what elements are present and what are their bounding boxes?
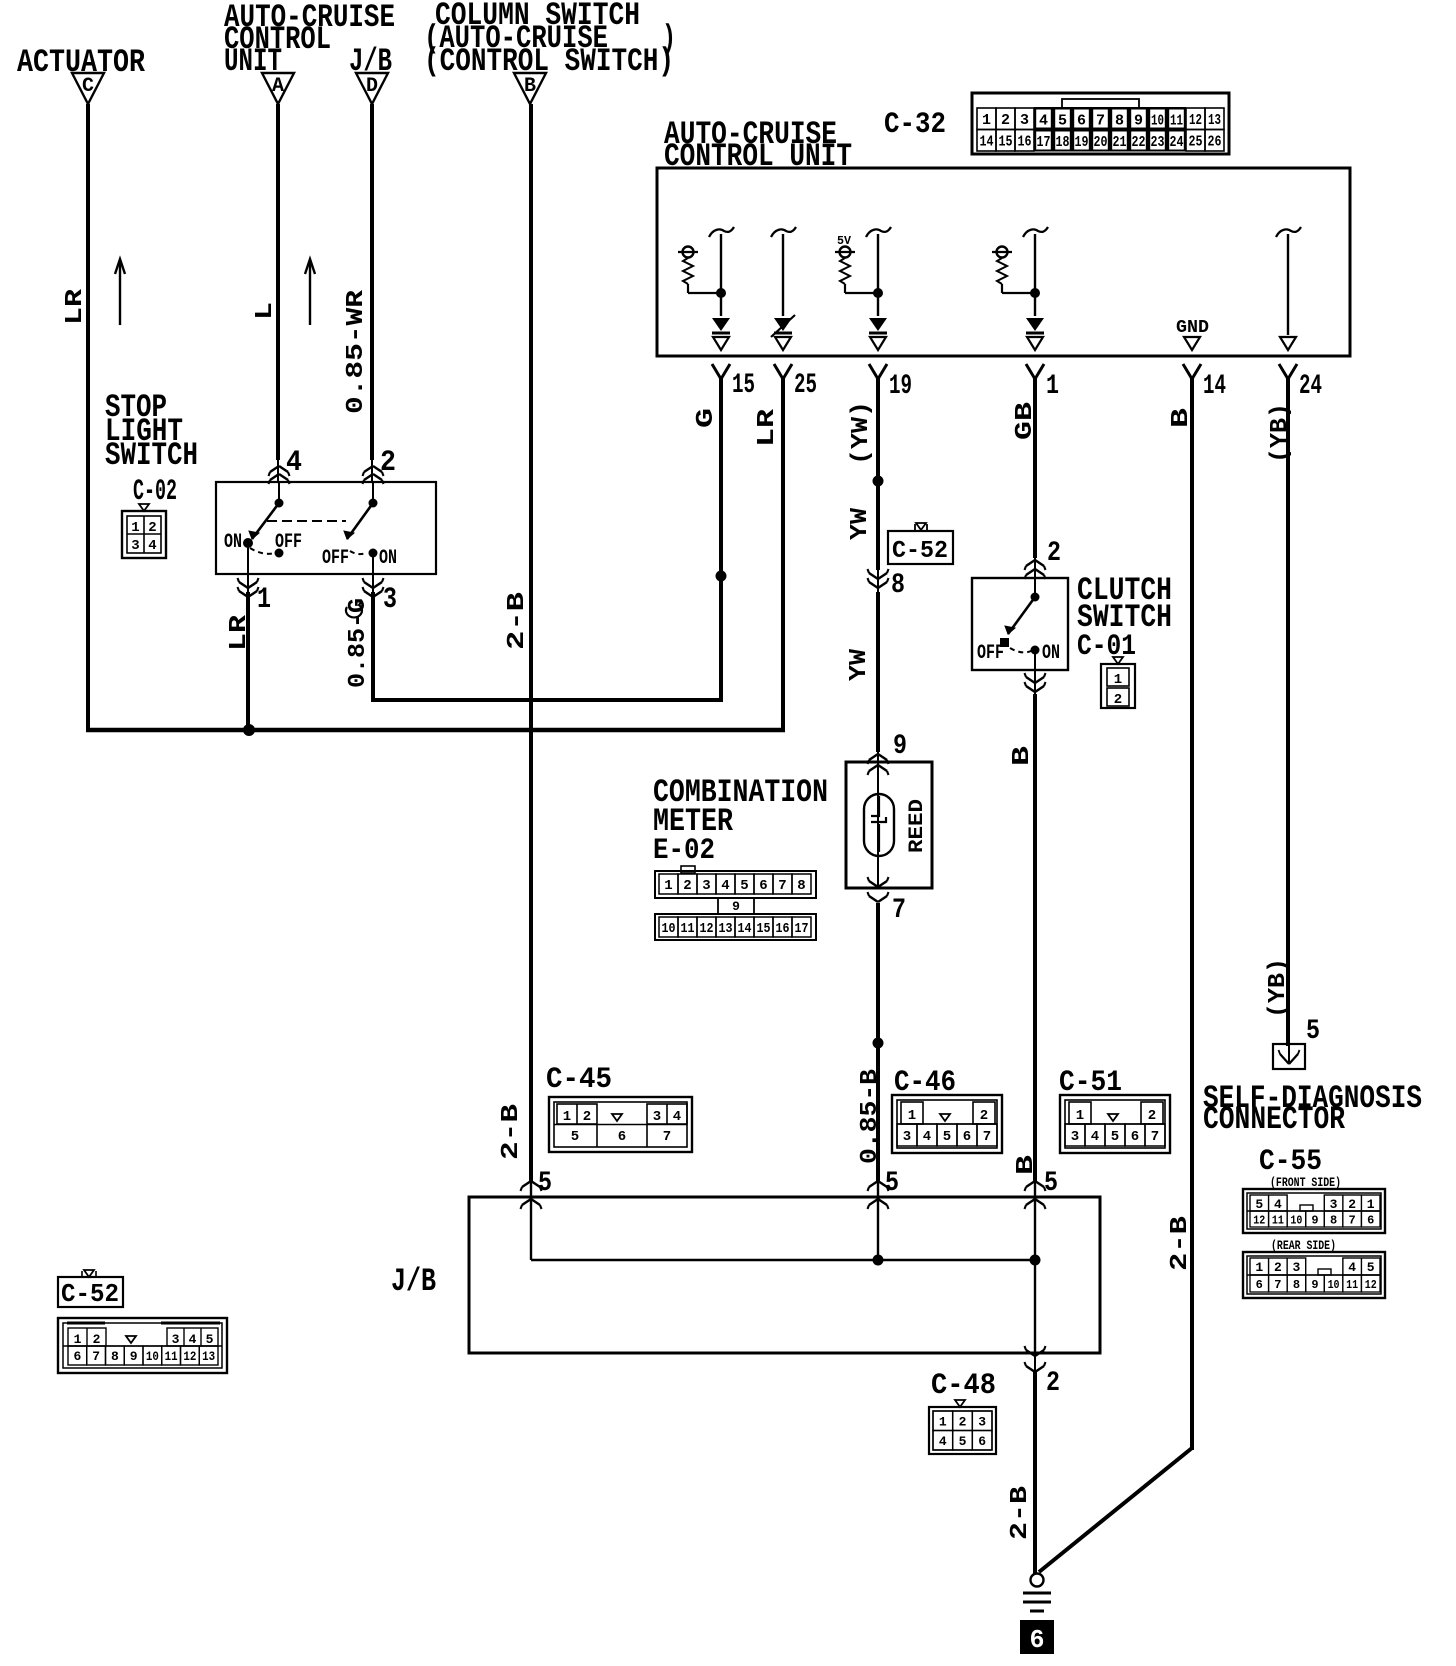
svg-text:6: 6 — [963, 1129, 971, 1145]
svg-text:4: 4 — [721, 878, 729, 894]
svg-text:19: 19 — [1075, 134, 1089, 151]
svg-text:0.85-G: 0.85-G — [345, 598, 372, 688]
svg-text:1: 1 — [1076, 1108, 1084, 1124]
svg-text:7: 7 — [983, 1129, 991, 1145]
svg-text:(CONTROL SWITCH): (CONTROL SWITCH) — [424, 43, 674, 80]
svg-text:5: 5 — [1255, 1197, 1263, 1212]
svg-text:(YB): (YB) — [1265, 958, 1292, 1018]
svg-text:2: 2 — [148, 520, 156, 536]
svg-text:4: 4 — [1091, 1129, 1099, 1145]
svg-text:5: 5 — [740, 878, 748, 894]
svg-text:5: 5 — [206, 1332, 214, 1347]
svg-text:C-51: C-51 — [1059, 1066, 1122, 1100]
svg-text:LR: LR — [62, 288, 89, 325]
svg-text:3: 3 — [702, 878, 710, 894]
svg-text:9: 9 — [1311, 1213, 1318, 1227]
svg-text:ON: ON — [224, 531, 242, 554]
svg-text:3: 3 — [978, 1414, 986, 1429]
svg-text:1: 1 — [664, 878, 672, 894]
svg-text:4: 4 — [923, 1129, 931, 1145]
svg-text:C-46: C-46 — [894, 1066, 956, 1100]
svg-text:4: 4 — [673, 1109, 681, 1125]
svg-text:4: 4 — [286, 446, 302, 480]
svg-text:(YB): (YB) — [1267, 403, 1294, 463]
svg-text:8: 8 — [797, 878, 805, 894]
svg-text:9: 9 — [1134, 113, 1143, 130]
svg-text:ON: ON — [379, 547, 397, 570]
svg-text:4: 4 — [939, 1434, 947, 1449]
svg-text:18: 18 — [1056, 134, 1070, 151]
svg-text:6: 6 — [1367, 1213, 1374, 1227]
svg-text:5: 5 — [959, 1434, 967, 1449]
svg-text:15: 15 — [757, 921, 771, 937]
svg-text:15: 15 — [732, 370, 755, 401]
svg-text:6: 6 — [1077, 113, 1086, 130]
svg-text:B: B — [1013, 1155, 1040, 1175]
svg-text:5: 5 — [1058, 113, 1067, 130]
svg-text:13: 13 — [1208, 112, 1221, 129]
svg-text:8: 8 — [1115, 113, 1124, 130]
svg-text:14: 14 — [980, 134, 994, 151]
svg-text:3: 3 — [903, 1129, 911, 1145]
svg-text:LR: LR — [226, 614, 253, 651]
svg-text:2: 2 — [683, 878, 691, 894]
svg-text:14: 14 — [1203, 371, 1226, 402]
svg-text:2-B: 2-B — [1007, 1486, 1034, 1540]
svg-text:C-01: C-01 — [1077, 630, 1136, 664]
svg-text:12: 12 — [1189, 112, 1202, 129]
svg-text:1: 1 — [939, 1414, 947, 1429]
svg-text:3: 3 — [1071, 1129, 1079, 1145]
svg-text:6: 6 — [1030, 1625, 1045, 1655]
svg-text:9: 9 — [1311, 1278, 1318, 1292]
svg-text:1: 1 — [982, 112, 991, 129]
svg-text:3: 3 — [131, 538, 139, 554]
svg-text:16: 16 — [1018, 134, 1032, 151]
svg-text:2: 2 — [1114, 692, 1122, 708]
svg-text:(REAR SIDE): (REAR SIDE) — [1271, 1238, 1336, 1253]
svg-text:1: 1 — [257, 583, 271, 617]
svg-text:GB: GB — [1012, 402, 1039, 440]
svg-text:2-B: 2-B — [504, 592, 531, 650]
svg-text:LR: LR — [754, 408, 781, 447]
svg-text:B: B — [1168, 408, 1195, 428]
svg-text:8: 8 — [1330, 1213, 1337, 1227]
svg-text:5: 5 — [571, 1129, 579, 1145]
svg-text:1: 1 — [1367, 1197, 1375, 1212]
svg-text:17: 17 — [795, 921, 809, 937]
svg-text:25: 25 — [1189, 134, 1203, 151]
svg-text:6: 6 — [978, 1434, 986, 1449]
svg-text:9: 9 — [732, 899, 740, 914]
svg-text:1: 1 — [563, 1109, 571, 1125]
svg-text:1: 1 — [1046, 371, 1059, 402]
svg-text:23: 23 — [1151, 134, 1165, 151]
svg-text:5: 5 — [1306, 1016, 1320, 1047]
svg-text:2: 2 — [1001, 112, 1010, 129]
svg-text:(YW): (YW) — [848, 401, 875, 465]
svg-text:7: 7 — [778, 878, 786, 894]
svg-text:L: L — [252, 302, 279, 320]
svg-text:21: 21 — [1113, 134, 1127, 151]
svg-text:8: 8 — [891, 570, 905, 601]
svg-text:7: 7 — [1349, 1213, 1356, 1227]
svg-text:6: 6 — [73, 1349, 81, 1364]
svg-text:9: 9 — [130, 1349, 138, 1364]
svg-text:0.85-WR: 0.85-WR — [343, 289, 370, 414]
svg-text:SWITCH: SWITCH — [105, 437, 198, 474]
svg-text:19: 19 — [889, 371, 912, 402]
svg-text:5: 5 — [943, 1129, 951, 1145]
svg-text:4: 4 — [1039, 113, 1048, 130]
svg-text:B: B — [1009, 746, 1036, 766]
svg-text:2: 2 — [1274, 1260, 1282, 1275]
svg-text:C-52: C-52 — [892, 538, 948, 565]
svg-text:2-B: 2-B — [498, 1104, 525, 1160]
svg-text:15: 15 — [999, 134, 1013, 151]
svg-text:C-52: C-52 — [61, 1279, 119, 1309]
svg-text:2: 2 — [959, 1414, 967, 1429]
svg-text:2: 2 — [93, 1332, 101, 1347]
svg-text:2: 2 — [583, 1109, 591, 1125]
svg-text:ON: ON — [1042, 642, 1060, 665]
svg-text:2: 2 — [1348, 1197, 1356, 1212]
svg-text:16: 16 — [776, 921, 790, 937]
svg-text:10: 10 — [1290, 1213, 1302, 1227]
svg-text:REED: REED — [906, 799, 929, 853]
svg-text:C-48: C-48 — [931, 1369, 996, 1403]
svg-text:13: 13 — [202, 1349, 215, 1364]
svg-text:7: 7 — [663, 1129, 671, 1145]
svg-text:11: 11 — [1346, 1278, 1358, 1292]
svg-text:C: C — [82, 75, 94, 98]
svg-text:20: 20 — [1094, 134, 1108, 151]
svg-text:(FRONT SIDE): (FRONT SIDE) — [1270, 1175, 1341, 1190]
svg-text:1: 1 — [1114, 672, 1122, 688]
svg-text:4: 4 — [148, 538, 156, 554]
svg-text:11: 11 — [681, 921, 695, 937]
svg-text:11: 11 — [165, 1349, 178, 1364]
svg-text:7: 7 — [1096, 113, 1105, 130]
svg-text:10: 10 — [662, 921, 676, 937]
svg-text:11: 11 — [1272, 1213, 1284, 1227]
svg-text:12: 12 — [183, 1349, 196, 1364]
svg-text:5: 5 — [538, 1168, 552, 1199]
svg-text:YW: YW — [846, 648, 873, 681]
svg-text:26: 26 — [1208, 134, 1222, 151]
svg-text:6: 6 — [759, 878, 767, 894]
svg-text:3: 3 — [172, 1332, 180, 1347]
svg-text:G: G — [693, 408, 720, 428]
svg-text:7: 7 — [92, 1349, 100, 1364]
svg-text:12: 12 — [1365, 1278, 1377, 1292]
svg-text:3: 3 — [653, 1109, 661, 1125]
svg-text:3: 3 — [1020, 112, 1029, 129]
svg-text:1: 1 — [74, 1332, 82, 1347]
svg-text:14: 14 — [738, 921, 752, 937]
svg-text:24: 24 — [1299, 371, 1322, 402]
svg-text:4: 4 — [1348, 1260, 1356, 1275]
svg-text:10: 10 — [1328, 1278, 1340, 1292]
svg-text:C-45: C-45 — [546, 1063, 612, 1097]
svg-text:6: 6 — [1131, 1129, 1139, 1145]
svg-text:8: 8 — [1293, 1278, 1300, 1292]
svg-text:3: 3 — [383, 583, 397, 617]
svg-text:J/B: J/B — [391, 1263, 436, 1300]
svg-text:1: 1 — [131, 520, 139, 536]
svg-text:OFF: OFF — [322, 547, 349, 570]
svg-text:CONNECTOR: CONNECTOR — [1203, 1101, 1346, 1138]
svg-text:5: 5 — [1111, 1129, 1119, 1145]
svg-text:5: 5 — [885, 1168, 899, 1199]
svg-text:6: 6 — [618, 1129, 626, 1145]
svg-text:1: 1 — [908, 1108, 916, 1124]
svg-text:12: 12 — [700, 921, 714, 937]
svg-text:C-32: C-32 — [884, 108, 946, 142]
svg-text:2: 2 — [980, 1108, 988, 1124]
svg-text:4: 4 — [1274, 1197, 1282, 1212]
svg-text:3: 3 — [1330, 1197, 1338, 1212]
svg-text:5: 5 — [1044, 1168, 1058, 1199]
svg-text:6: 6 — [1256, 1278, 1263, 1292]
svg-text:12: 12 — [1253, 1213, 1265, 1227]
svg-text:4: 4 — [189, 1332, 197, 1347]
svg-text:5: 5 — [1367, 1260, 1375, 1275]
svg-text:C-55: C-55 — [1259, 1145, 1322, 1179]
svg-text:3: 3 — [1293, 1260, 1301, 1275]
svg-text:13: 13 — [719, 921, 733, 937]
svg-text:GND: GND — [1176, 318, 1209, 338]
svg-text:22: 22 — [1132, 134, 1146, 151]
svg-text:7: 7 — [1151, 1129, 1159, 1145]
svg-text:9: 9 — [893, 731, 907, 762]
svg-text:OFF: OFF — [977, 642, 1004, 665]
svg-text:17: 17 — [1037, 134, 1051, 151]
svg-text:2: 2 — [1047, 538, 1061, 569]
svg-text:1: 1 — [1255, 1260, 1263, 1275]
svg-text:A: A — [272, 75, 284, 98]
svg-text:YW: YW — [847, 507, 874, 540]
svg-text:2-B: 2-B — [1167, 1216, 1194, 1271]
svg-text:E-02: E-02 — [653, 834, 715, 868]
svg-text:7: 7 — [892, 895, 906, 926]
svg-text:25: 25 — [794, 370, 817, 401]
svg-text:B: B — [524, 75, 536, 98]
svg-text:10: 10 — [146, 1349, 159, 1364]
svg-text:2: 2 — [380, 446, 396, 480]
svg-text:0.85-B: 0.85-B — [857, 1069, 884, 1164]
svg-text:2: 2 — [1148, 1108, 1156, 1124]
svg-text:11: 11 — [1170, 113, 1183, 130]
svg-text:2: 2 — [1046, 1368, 1060, 1399]
svg-text:10: 10 — [1151, 113, 1164, 130]
svg-text:24: 24 — [1170, 134, 1184, 151]
svg-text:D: D — [366, 75, 378, 98]
svg-text:7: 7 — [1274, 1278, 1281, 1292]
svg-text:8: 8 — [111, 1349, 119, 1364]
